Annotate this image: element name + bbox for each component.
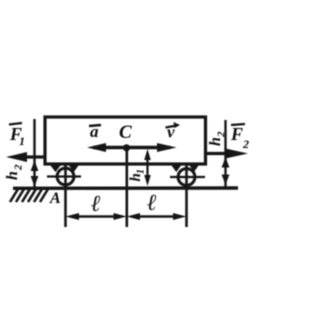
svg-text:ℓ: ℓ [91,191,101,216]
svg-text:2: 2 [13,164,25,171]
svg-text:C: C [119,122,132,143]
svg-text:1: 1 [136,169,147,174]
svg-text:1: 1 [19,134,25,148]
svg-text:ℓ: ℓ [147,190,157,215]
svg-text:2: 2 [242,137,249,151]
svg-text:h: h [4,171,21,180]
svg-text:2: 2 [216,131,228,138]
svg-text:A: A [49,190,61,207]
svg-text:h: h [207,137,224,146]
svg-text:F: F [230,124,243,144]
